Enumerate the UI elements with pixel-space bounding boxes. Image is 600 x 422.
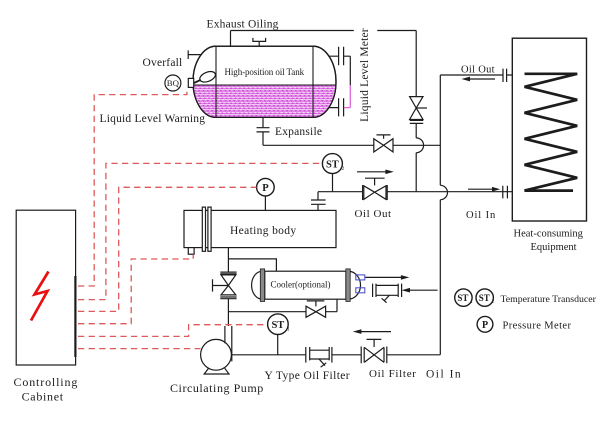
svg-text:Oil Out: Oil Out (461, 65, 495, 76)
wire exhaust oiling top run (231, 30, 417, 32)
svg-text:2: 2 (492, 300, 495, 305)
svg-text:Heating body: Heating body (230, 225, 296, 237)
svg-text:Oil In: Oil In (466, 210, 496, 221)
pressure meter stem (264, 196, 266, 210)
wire expansile stem lower (262, 132, 264, 145)
controlling cabinet box (16, 210, 75, 365)
float ball (198, 69, 217, 84)
wire pump discharge horizontal (228, 311, 337, 313)
svg-text:Oil In: Oil In (426, 368, 462, 380)
wire oil-out main line from heater (318, 191, 512, 193)
arrow flow left on oil out top (462, 77, 496, 82)
arrow water out right (365, 275, 409, 280)
heating body left flange bars (202, 207, 205, 251)
valve on exhaust drop (410, 97, 427, 124)
wire heater top connection (317, 192, 319, 211)
arrow flow right on oil-in to equipment (468, 187, 500, 192)
valve oil out main (363, 178, 388, 200)
cooler right tube sheet (346, 269, 350, 302)
legend circle ST2 (476, 289, 493, 306)
cabinet right edge thick segment (74, 276, 76, 357)
svg-text:Pressure Meter: Pressure Meter (503, 321, 572, 332)
svg-text:Cabinet: Cabinet (22, 389, 64, 403)
svg-text:Controlling: Controlling (14, 375, 79, 389)
float link (194, 80, 201, 83)
svg-text:ST: ST (457, 293, 468, 303)
valve vertical above pump (213, 272, 237, 299)
water strainer (373, 284, 402, 303)
red wire to pump (78, 348, 201, 350)
wire exhaust stem from tank top (230, 31, 232, 47)
instrument circle BQ (165, 75, 181, 91)
wire heater drop to pump (227, 248, 229, 326)
wire right drop to valve (415, 31, 417, 97)
high position oil tank shell (193, 46, 336, 117)
level gauge top tap (329, 47, 350, 65)
wire bottom return run (216, 354, 440, 356)
svg-text:Liquid Level Meter: Liquid Level Meter (359, 28, 371, 122)
float gauge wall nozzle (188, 78, 193, 87)
cooler left tube sheet (260, 269, 264, 302)
arrow water in left (402, 288, 438, 293)
level gauge tube lower (sight glass) (344, 85, 350, 108)
circulating pump body (201, 339, 232, 370)
svg-text:Equipment: Equipment (531, 242, 577, 253)
ST1 stem (277, 335, 279, 355)
cooler water nozzle bottom (blue) (356, 288, 365, 293)
instrument circle P (257, 178, 275, 196)
wire return riser from heat equipment (439, 75, 441, 185)
svg-text:Oil Filter: Oil Filter (369, 368, 417, 380)
pipe hop over expansile line (416, 138, 423, 153)
level gauge tube upper (349, 56, 351, 85)
arrow flow left above bottom return (353, 329, 391, 334)
red wire to tank level switch BQ (78, 88, 187, 286)
flange on oil out top (503, 69, 507, 82)
tank liquid fill (193, 46, 336, 117)
wire expansile horizontal run (263, 144, 440, 146)
svg-text:P: P (482, 320, 488, 331)
lightning bolt in cabinet (31, 272, 49, 321)
tank top nozzle (252, 38, 266, 46)
level gauge bottom tap (329, 98, 344, 116)
svg-text:Heat-consuming: Heat-consuming (514, 229, 584, 240)
heating body sensor nozzle (188, 248, 194, 255)
flange on oil-in to equipment (503, 186, 508, 199)
valve below cooler (306, 301, 326, 317)
svg-text:1: 1 (470, 300, 473, 305)
pipe hop over oil-in line (440, 185, 447, 199)
svg-text:P: P (262, 183, 269, 194)
svg-text:ST: ST (326, 160, 339, 171)
svg-text:ST: ST (271, 320, 284, 331)
instrument circle ST2 (322, 154, 342, 174)
tank liquid surface line (193, 84, 336, 86)
flange on expansile stem (257, 128, 270, 132)
cooler left head (252, 271, 261, 299)
svg-text:1: 1 (287, 326, 290, 332)
overfall nozzle (188, 50, 201, 59)
red wire to heating body sensor (78, 254, 193, 323)
wire cooler outlet drop (336, 299, 338, 312)
cooler right head (350, 271, 360, 299)
arrow flow right above oil out valve (357, 170, 394, 175)
cooler shell (265, 271, 346, 299)
wire drop to oil-out line (415, 153, 417, 192)
wire return riser lower (439, 200, 441, 355)
ST2 stem (332, 174, 334, 192)
svg-text:ST: ST (479, 293, 490, 303)
svg-text:Exhaust Oiling: Exhaust Oiling (207, 19, 279, 31)
heating body shell (184, 210, 336, 247)
red control dashed lines (78, 88, 322, 349)
pump base (204, 368, 229, 374)
svg-text:High-position oil Tank: High-position oil Tank (225, 67, 305, 77)
valve oil filter (361, 339, 387, 363)
svg-text:Expansile: Expansile (275, 126, 322, 138)
svg-text:Overfall: Overfall (143, 57, 183, 69)
svg-text:Liquid Level Warning: Liquid Level Warning (100, 113, 206, 125)
legend circle P (477, 316, 493, 332)
cooler water nozzle top (blue) (356, 275, 365, 280)
tank shell outline redraw (193, 46, 336, 117)
valve on expansile line (374, 135, 393, 152)
svg-text:Circulating Pump: Circulating Pump (170, 381, 264, 395)
legend circle ST1 (455, 289, 472, 306)
wire drop below valve (415, 123, 417, 137)
svg-text:Temperature Transducer: Temperature Transducer (501, 294, 597, 305)
svg-text:Cooler(optional): Cooler(optional) (271, 280, 331, 290)
pump discharge duct (225, 326, 232, 361)
red wire to ST1 (78, 325, 268, 337)
heat-consuming equipment box (512, 38, 586, 221)
wire expansile stem from tank bottom (262, 117, 264, 127)
coil inside heat equipment (525, 74, 578, 191)
svg-text:BQ: BQ (167, 78, 180, 88)
wire branch to cooler inlet (228, 259, 276, 271)
wire heat equipment oil out top run (440, 74, 512, 76)
svg-text:Y Type Oil Filter: Y Type Oil Filter (265, 370, 351, 382)
Y type oil filter (306, 347, 332, 367)
white mask for vertical text over exhaust line (354, 25, 378, 34)
svg-text:Oil Out: Oil Out (355, 208, 392, 220)
tank end seams (216, 46, 313, 117)
svg-text:2: 2 (342, 166, 345, 172)
red wire to pressure meter (78, 187, 257, 311)
instrument circle ST1 (268, 314, 289, 335)
flange on heater top connection (311, 200, 326, 204)
red wire to ST2 (78, 163, 322, 299)
